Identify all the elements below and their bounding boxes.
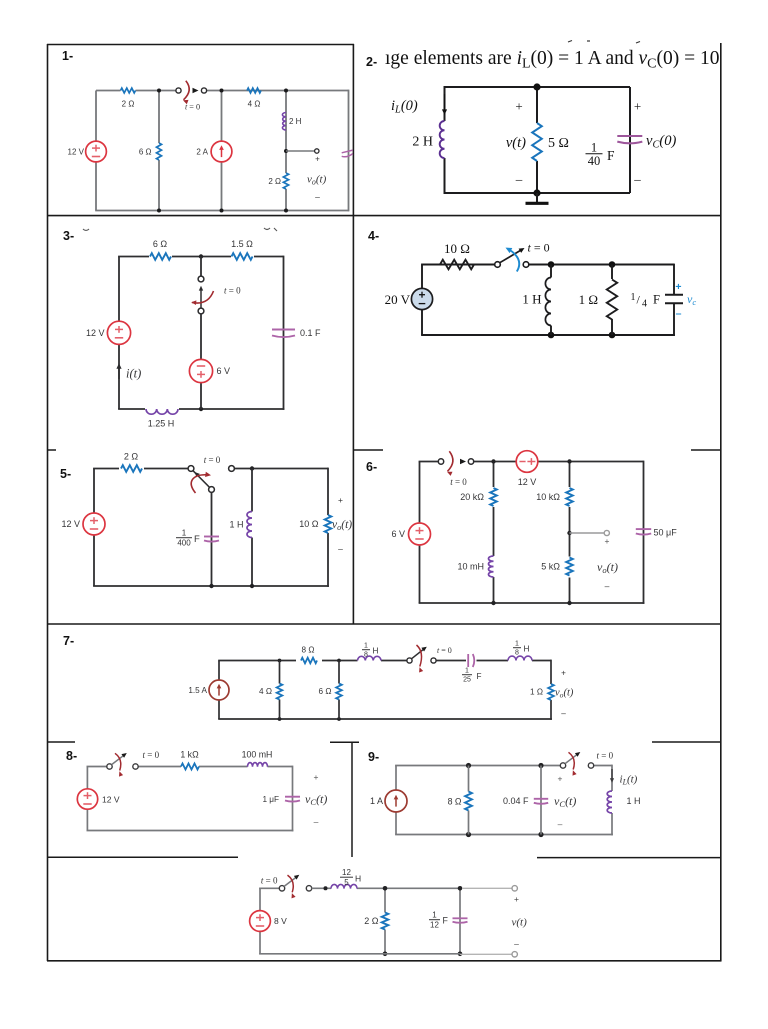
svg-text:1: 1 (182, 529, 187, 538)
svg-text:0.04 F: 0.04 F (503, 796, 529, 806)
svg-text:10 kΩ: 10 kΩ (536, 492, 560, 502)
svg-text:ıge elements are iL(0) = 1 A a: ıge elements are iL(0) = 1 A and vC(0) =… (385, 48, 720, 72)
C4 wire: inductor branch (550, 265, 552, 278)
svg-text:1: 1 (631, 292, 636, 303)
C1 wire: outer loop left (95, 91, 97, 211)
svg-text:+: + (634, 99, 641, 114)
svg-text:F: F (607, 148, 615, 163)
wire: 2 A branch (C1) (221, 91, 223, 142)
svg-text:6 Ω: 6 Ω (153, 239, 168, 249)
svg-text:6 Ω: 6 Ω (139, 147, 152, 156)
svg-text:1: 1 (591, 141, 597, 155)
svg-text:t = 0: t = 0 (224, 286, 241, 296)
svg-text:5: 5 (344, 878, 349, 887)
svg-text:6 V: 6 V (391, 529, 405, 539)
switch red arc (C6) (448, 451, 453, 471)
svg-text:t = 0: t = 0 (143, 750, 160, 760)
svg-text:H: H (355, 874, 361, 884)
svg-text:12 V: 12 V (86, 328, 105, 338)
capacitor 1/400 F (C5) (204, 536, 219, 538)
voltage source 20 V (C4) (411, 288, 432, 309)
svg-text:6-: 6- (366, 460, 377, 474)
node dots (C7) (278, 659, 282, 663)
node dots 8 ohm branch (C9) (466, 763, 471, 768)
svg-text:t = 0: t = 0 (450, 477, 467, 487)
capacitor 1/4 F (C4) (665, 294, 683, 296)
resistor 6 ohm (C7) (336, 684, 342, 700)
inductor 1 H (C5) (247, 512, 252, 538)
C8 wire: outer loop (86, 767, 88, 790)
svg-text:1: 1 (432, 911, 437, 920)
current source 1 A (C9) (385, 790, 407, 812)
capacitor 1/40 F (C2) (617, 135, 642, 137)
svg-text:2 H: 2 H (412, 135, 433, 150)
C6 wire: outer loop (419, 462, 421, 524)
switch throw circle (C6) (468, 459, 473, 464)
svg-text:+: + (338, 495, 343, 505)
switch pole circle (C4) (495, 262, 501, 268)
svg-text:12 V: 12 V (102, 794, 120, 804)
switch t=0 (C1): closing arrow (193, 88, 199, 93)
C9 wire: outer loop (395, 766, 397, 791)
resistor 2 ohm (C10) (382, 913, 389, 930)
node dot (C1 output tap) (284, 149, 288, 153)
output terminal circle (C6) (604, 530, 609, 535)
switch throw circle (C9) (588, 763, 593, 768)
node dot (C1 bottom of 6 ohm) (157, 209, 161, 213)
svg-text:2-: 2- (366, 55, 377, 69)
C1 wire: top right segment (207, 90, 349, 92)
C7 wire: bottom rail (218, 718, 552, 720)
voltage source 12 V (C3) (107, 321, 130, 344)
resistor 1 ohm (C7) (548, 684, 554, 700)
svg-text:5 Ω: 5 Ω (548, 136, 569, 151)
svg-text:12: 12 (430, 920, 439, 929)
svg-text:1.5 Ω: 1.5 Ω (231, 239, 253, 249)
node dot bottom (C2) (533, 189, 540, 196)
svg-text:1: 1 (465, 668, 469, 675)
inductor 2 H (C2) (440, 121, 445, 158)
resistor 5 kohm (C6) (566, 558, 573, 576)
svg-text:10 Ω: 10 Ω (444, 241, 470, 256)
svg-text:8-: 8- (66, 749, 77, 763)
svg-text:2 H: 2 H (289, 117, 302, 126)
svg-text:10 Ω: 10 Ω (299, 519, 319, 529)
resistor 2 ohm top (C1) (121, 88, 136, 93)
C2 wire: middle branch (536, 87, 538, 123)
svg-text:8 Ω: 8 Ω (448, 797, 462, 807)
C10 wire: capacitor branch (459, 888, 461, 954)
svg-text:8: 8 (515, 650, 519, 657)
svg-text:vo(t): vo(t) (555, 688, 574, 700)
C2 wire: outer loop (444, 87, 446, 121)
switch red arc (C5) (191, 475, 207, 493)
svg-text:F: F (194, 534, 200, 545)
switch blue arc (C4) (508, 249, 519, 272)
svg-text:2 Ω: 2 Ω (364, 916, 379, 926)
switch blade (C5) (193, 471, 210, 488)
C3 artifact marks (83, 229, 89, 231)
switch red arc (C9) (569, 752, 575, 769)
switch red arc (C8) (115, 753, 121, 770)
voltage source 8 V (C10) (250, 911, 271, 932)
ground symbol (C2) (536, 193, 538, 203)
frame: divider above bottom circuit right segment (537, 857, 721, 859)
svg-text:1-: 1- (62, 49, 73, 63)
C1 wire: right side (348, 90, 350, 212)
wire: output tap lead (C1) (286, 150, 314, 152)
resistor 4 ohm (C1) (247, 88, 261, 93)
svg-text:v(t): v(t) (506, 135, 526, 151)
svg-text:4-: 4- (368, 229, 379, 243)
resistor 6 ohm (C3) (149, 252, 172, 261)
svg-text:+: + (515, 99, 522, 114)
switch blade (C8) (112, 755, 125, 765)
C7 wire: right branch (550, 660, 552, 684)
inductor 10 mH (C6) (488, 556, 493, 577)
node dot output tap (C6) (567, 531, 571, 535)
voltage source 12 V (C8) (77, 789, 97, 809)
switch throw circle (C7) (431, 658, 436, 663)
svg-text:2 Ω: 2 Ω (124, 452, 139, 462)
node dot (C1 top of 2A) (220, 89, 224, 93)
frame: row5 tick middle (330, 741, 359, 743)
svg-text:+: + (315, 155, 320, 164)
output terminal bottom (C10) (512, 952, 517, 957)
C3 wire: middle branch lower (200, 314, 202, 359)
frame: divider row3/row4 (47, 623, 721, 625)
capacitor 50 uF (C6) (636, 528, 651, 530)
capacitor 0.1 F (C3) (272, 329, 295, 331)
svg-text:–: – (561, 709, 566, 718)
switch blade (C4) (500, 250, 522, 263)
capacitor 1/25 F series (C7) (467, 654, 469, 667)
switch throw circle (C10) (306, 886, 311, 891)
switch pole circle (C6) (438, 459, 443, 464)
switch pole circle (C8) (107, 764, 112, 769)
svg-text:400: 400 (177, 538, 191, 547)
resistor 2 ohm (C5) (119, 464, 144, 473)
switch pole circle (C9) (560, 763, 565, 768)
C2 header artifact marks (568, 41, 572, 43)
C10 wire: top rail (312, 887, 332, 889)
node dot top (C5 inductor branch) (250, 466, 254, 470)
C7 wire: top rail right part (436, 660, 466, 662)
svg-text:9-: 9- (368, 750, 379, 764)
svg-text:t = 0: t = 0 (185, 102, 200, 111)
svg-text:20 V: 20 V (385, 292, 411, 307)
frame: top border (47, 44, 354, 46)
svg-text:4: 4 (642, 299, 647, 310)
switch blade with up arrow (C3) (200, 290, 202, 309)
resistor 1.5 ohm (C3) (231, 252, 254, 261)
node dot top (C2) (533, 83, 540, 90)
capacitor 1 uF (C8) (285, 796, 300, 798)
svg-text:5-: 5- (60, 467, 71, 481)
svg-text:H: H (524, 645, 530, 654)
node dot (C1 top of 6 ohm) (157, 89, 161, 93)
resistor 6 ohm (C1) (155, 143, 163, 160)
switch lower circle (C5) (209, 487, 215, 493)
svg-text:vC(t): vC(t) (305, 792, 327, 807)
switch throw circle (C8) (133, 764, 138, 769)
node dots capacitor branch (C9) (538, 763, 543, 768)
resistor 10 kohm (C6) (566, 488, 573, 506)
svg-text:2 Ω: 2 Ω (122, 99, 135, 108)
capacitor 0.04 F (C9) (534, 798, 548, 800)
svg-text:2 Ω: 2 Ω (268, 177, 281, 186)
resistor 2 ohm output (C1) (282, 173, 290, 189)
svg-text:vo(t): vo(t) (332, 519, 352, 532)
svg-text:1 kΩ: 1 kΩ (180, 750, 199, 760)
svg-text:1 H: 1 H (627, 796, 641, 806)
C10 wire: gray lead bottom (460, 953, 512, 955)
svg-text:–: – (605, 581, 610, 591)
C6 wire: 10k/5k branch (569, 462, 571, 488)
svg-text:100 mH: 100 mH (242, 750, 273, 760)
current arrow i(t) (C3) (118, 367, 120, 379)
svg-text:1 A: 1 A (370, 796, 383, 806)
svg-text:20 kΩ: 20 kΩ (460, 492, 484, 502)
svg-text:+: + (314, 772, 319, 782)
C10 wire: gray lead top (462, 887, 512, 889)
voltage source 6 V (C6) (409, 523, 431, 545)
svg-text:vC(t): vC(t) (554, 794, 576, 809)
switch circle upper (C3) (198, 276, 204, 282)
C3 wire: middle branch upper (200, 257, 202, 277)
svg-text:t = 0: t = 0 (437, 646, 452, 655)
resistor 20 kohm (C6) (490, 488, 497, 506)
svg-text:1 μF: 1 μF (262, 795, 279, 804)
wire: 6 ohm branch (C1) (158, 91, 160, 211)
current source 2 A (C1) (211, 141, 232, 162)
switch t=0 (C1): red arc (184, 81, 190, 100)
svg-text:3-: 3- (63, 229, 74, 243)
arrow i_L(0) (C2) (444, 94, 446, 111)
node dot after switch (C10) (324, 886, 328, 890)
svg-text:7-: 7- (63, 634, 74, 648)
voltage source 12 V horizontal (C6) (516, 451, 538, 473)
node dot top middle (C3) (199, 254, 203, 258)
C4 wire: outer loop (421, 265, 423, 289)
inductor 12/5 H (C10) (331, 884, 357, 888)
current source 1.5 A (C7) (209, 680, 229, 700)
svg-text:iL(t): iL(t) (620, 774, 638, 787)
svg-text:–: – (314, 817, 319, 827)
node dots bottom (C5) (209, 584, 213, 588)
wire: output branch (C1) (285, 91, 287, 211)
C5 wire: outer loop (93, 469, 95, 514)
arrow i_L(t) (C9) (611, 769, 613, 780)
resistor 1 ohm (C4) (604, 279, 620, 319)
inductor 1 H (C4) (545, 278, 551, 326)
resistor 4 ohm (C7) (277, 684, 283, 700)
switch pole circle (C10) (279, 886, 284, 891)
switch throw circle (C5) (229, 466, 235, 472)
C10 wire: left branch (259, 888, 261, 910)
frame: right border (720, 43, 722, 961)
switch blade (C9) (565, 754, 578, 764)
svg-text:+: + (514, 894, 519, 904)
svg-text:8 V: 8 V (274, 916, 287, 926)
voltage source 12 V (C1) (86, 141, 107, 162)
C1 wire: bottom (95, 210, 349, 212)
svg-text:2 A: 2 A (196, 147, 208, 156)
svg-text:6 V: 6 V (217, 366, 231, 376)
svg-text:4 Ω: 4 Ω (248, 99, 261, 108)
switch red arc (C7) (417, 645, 422, 667)
svg-text:F: F (653, 293, 660, 307)
voltage source 12 V (C5) (83, 513, 105, 535)
node dot (C1 bottom of output branch) (284, 209, 288, 213)
svg-text:F: F (443, 916, 449, 926)
C10 wire: bottom rail (259, 953, 460, 955)
svg-text:+: + (558, 774, 563, 784)
wire: output tap lead (C6) (570, 532, 605, 534)
node dots (C4) (548, 261, 555, 268)
C9 wire: 8 ohm branch (468, 766, 470, 792)
node dots 10k branch (C6) (567, 459, 571, 463)
inductor 1/8 H first (C7) (358, 656, 382, 660)
frame: divider above bottom circuit left segment (47, 856, 238, 858)
frame: row3 tick middle (353, 449, 383, 451)
svg-text:12 V: 12 V (61, 519, 80, 529)
frame: row5 tick right (652, 741, 721, 743)
switch t=0 (C1): throw circle (201, 88, 206, 93)
svg-text:1.25 H: 1.25 H (148, 419, 175, 429)
resistor 8 ohm (C7) (301, 658, 317, 664)
svg-text:1: 1 (515, 641, 519, 648)
frame: row3 tick right (691, 449, 721, 451)
svg-text:1: 1 (364, 643, 368, 650)
svg-text:0.1 F: 0.1 F (300, 328, 321, 338)
switch blade (C10) (284, 877, 297, 887)
clipped capacitor at right edge (C1) (342, 150, 353, 153)
svg-text:12: 12 (342, 868, 351, 877)
svg-text:+: + (605, 536, 610, 546)
resistor 10 ohm (C5) (320, 515, 336, 533)
svg-text:10 mH: 10 mH (457, 562, 484, 572)
switch throw circle (C4) (523, 262, 529, 268)
output terminal circle (C1) (315, 149, 319, 153)
inductor 2 H (C1) (278, 112, 285, 130)
node dots capacitor branch (C10) (458, 886, 463, 891)
svg-text:H: H (373, 647, 379, 656)
svg-text:40: 40 (588, 154, 601, 168)
svg-text:1 Ω: 1 Ω (530, 688, 543, 697)
capacitor 1/12 F (C10) (453, 917, 468, 919)
svg-text:25: 25 (463, 677, 471, 684)
svg-text:vo(t): vo(t) (597, 560, 618, 575)
svg-text:–: – (315, 192, 320, 202)
inductor 1.25 H (C3) (145, 408, 179, 412)
svg-text:8: 8 (364, 652, 368, 659)
inductor 100 mH (C8) (248, 763, 268, 767)
frame: center vertical divider (352, 44, 354, 624)
svg-text:–: – (514, 939, 519, 949)
svg-text:–: – (676, 308, 682, 320)
svg-text:–: – (633, 172, 641, 187)
svg-text:v(t): v(t) (512, 917, 528, 929)
svg-text:F: F (477, 672, 482, 681)
svg-text:50 μF: 50 μF (654, 528, 678, 538)
switch pole circle (C5) (188, 466, 194, 472)
switch circle lower (C3) (198, 308, 204, 314)
svg-text:i(t): i(t) (126, 367, 141, 381)
resistor 1 kohm (C8) (181, 764, 199, 770)
C9 wire: capacitor branch (540, 766, 542, 835)
frame: row5 tick left (47, 741, 75, 743)
frame: lower vertical divider (351, 742, 353, 857)
svg-text:1 Ω: 1 Ω (579, 292, 598, 307)
switch closing arrow (C6) (460, 459, 466, 464)
svg-text:8 Ω: 8 Ω (302, 646, 315, 655)
frame: left border (47, 44, 49, 961)
svg-text:1 H: 1 H (522, 292, 541, 307)
svg-text:vC(0): vC(0) (646, 133, 676, 151)
resistor 8 ohm (C9) (465, 792, 472, 811)
inductor 1 H (C9) (607, 791, 612, 813)
frame: row3 tick left (47, 449, 56, 451)
svg-text:vo(t): vo(t) (307, 174, 327, 187)
C6 wire: 20k/10mH branch (493, 462, 495, 488)
C1 wire: top left segment (96, 90, 121, 92)
switch t=0 (C1): pole circle (176, 88, 181, 93)
node dots 20k branch (C6) (491, 459, 495, 463)
svg-text:1.5 A: 1.5 A (188, 686, 207, 695)
C5 wire: inductor branch (251, 469, 253, 512)
svg-text:–: – (558, 819, 563, 829)
svg-text:12 V: 12 V (68, 147, 85, 156)
svg-text:+: + (561, 669, 566, 678)
switch red arc (C3) (192, 291, 214, 303)
C7 wire: top rail left part (218, 661, 220, 681)
svg-text:t = 0: t = 0 (597, 751, 614, 761)
svg-text:5 kΩ: 5 kΩ (541, 562, 560, 572)
svg-text:1 H: 1 H (229, 520, 243, 530)
frame: divider row1/row2 (47, 215, 721, 217)
svg-text:t = 0: t = 0 (261, 876, 278, 886)
C5 wire: capacitor branch (211, 492, 213, 586)
switch pole circle (C7) (407, 658, 412, 663)
svg-text:t = 0: t = 0 (528, 241, 550, 255)
switch red arc (C10) (288, 875, 294, 892)
C4 wire: 1 ohm branch (611, 265, 613, 336)
resistor 10 ohm (C4) (440, 260, 474, 270)
inductor 1/8 H second (C7) (508, 656, 532, 660)
frame: bottom border (47, 960, 722, 962)
C7 wire: 4 ohm branch (279, 661, 281, 684)
svg-text:+: + (675, 281, 681, 293)
node dot bottom middle (C3) (199, 407, 203, 411)
svg-text:–: – (515, 172, 523, 187)
node dot (C1 bottom of 2A) (220, 209, 224, 213)
C10 wire: 2 ohm branch (384, 888, 386, 912)
C7 wire: left branch (218, 700, 220, 719)
svg-text:4 Ω: 4 Ω (259, 687, 272, 696)
node dot (C1 top of output branch) (284, 89, 288, 93)
node dots 2 ohm branch (C10) (383, 886, 388, 891)
svg-text:12 V: 12 V (518, 477, 537, 487)
svg-text:t = 0: t = 0 (204, 455, 221, 465)
C3 wire: outer loop (118, 257, 120, 322)
switch blade (C7) (412, 649, 425, 659)
voltage source 6 V (C3) minus on top (189, 359, 212, 382)
C7 wire: 6 ohm branch (338, 661, 340, 684)
resistor 5 ohm (C2) (532, 123, 542, 161)
svg-text:6 Ω: 6 Ω (319, 687, 332, 696)
svg-text:–: – (338, 544, 343, 554)
